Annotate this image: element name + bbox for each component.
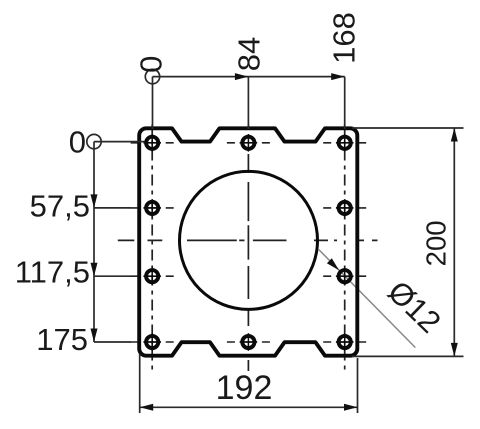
bottom dim 192 line [140, 406, 358, 408]
left origin circle [87, 134, 101, 148]
svg-text:117,5: 117,5 [15, 255, 90, 290]
top arrow at 168 [331, 73, 345, 80]
main horizontal centerline [118, 239, 378, 241]
left ordinate dimension line [93, 142, 95, 342]
hole r1c2 [240, 134, 258, 152]
right dim 200 extension top [352, 127, 464, 129]
hole centermark h row3 col3 [323, 275, 366, 277]
centerline column x=248.4 [247, 125, 249, 372]
big circle [180, 171, 318, 309]
hole centermark h row1 col3 [323, 142, 366, 144]
svg-text:168: 168 [327, 12, 362, 64]
hole r2c3 [336, 199, 354, 217]
centerline column x=344.7 [344, 125, 346, 372]
svg-text:175: 175 [36, 322, 88, 357]
hole r4c2 [240, 333, 258, 351]
bottom arrow left [140, 404, 154, 411]
top ordinate dimension line [153, 76, 345, 78]
hole r1c3 [336, 134, 354, 152]
svg-text:192: 192 [216, 369, 273, 407]
hole r3c3 [336, 267, 354, 285]
leader line O12 [319, 250, 416, 348]
hole centermark h row1 col1 [131, 142, 174, 144]
right arrow down [451, 343, 458, 357]
top arrow at 84 [235, 73, 249, 80]
hole centermark h row4 col1 [131, 341, 174, 343]
hole centermark h row4 col3 [323, 341, 366, 343]
hole r3c1 [143, 267, 161, 285]
top extension line x=344.7 [344, 77, 346, 129]
left arrow at 175 [91, 329, 98, 343]
left extension row4 [94, 341, 131, 343]
hole centermark h row2 col3 [323, 207, 366, 209]
right dim 200 extension bottom [352, 355, 464, 357]
bottom arrow right [344, 404, 358, 411]
hole centermark h row4 col2 [227, 341, 270, 343]
top origin circle [145, 69, 159, 83]
bottom dim 192 extension right [357, 358, 359, 413]
svg-text:84: 84 [232, 37, 267, 71]
left extension row3 [94, 275, 131, 277]
top extension line x=248.4 [247, 77, 249, 129]
centerline column x=152.2 [151, 125, 153, 372]
svg-text:0: 0 [69, 125, 86, 160]
left arrow at 57.5 [91, 194, 98, 208]
left extension row2 [94, 207, 131, 209]
hole r2c1 [143, 199, 161, 217]
top extension line x=152.5 [152, 77, 154, 129]
svg-text:200: 200 [421, 220, 452, 266]
right dim 200 line [453, 128, 455, 356]
svg-text:0: 0 [134, 56, 169, 73]
hole centermark h row2 col1 [131, 207, 174, 209]
right arrow up [451, 128, 458, 142]
hole centermark h row1 col2 [227, 142, 270, 144]
bottom dim 192 extension left [139, 354, 141, 413]
left arrow at 117.5 [91, 263, 98, 277]
leader arrow [327, 258, 339, 270]
hole r4c1 [143, 333, 161, 351]
left extension row1 [94, 141, 145, 143]
svg-text:57,5: 57,5 [30, 188, 90, 223]
hole r1c1 [143, 134, 161, 152]
hole r4c3 [336, 333, 354, 351]
hole centermark h row3 col1 [131, 275, 174, 277]
plate outline [139, 128, 357, 355]
